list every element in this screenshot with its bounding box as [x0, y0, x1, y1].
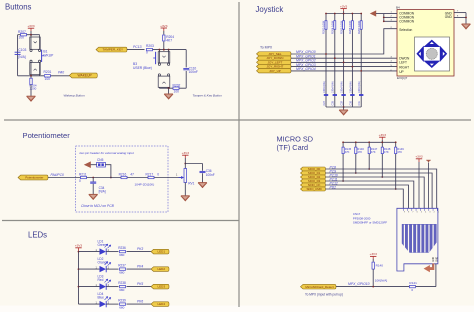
push-button B3 USER [153, 50, 170, 89]
label CN5 [97, 158, 104, 162]
wire vertical joystick net 4 [351, 14, 353, 108]
svg-text:680: 680 [119, 288, 124, 292]
net label PC13 [133, 45, 142, 49]
annotation text two pin header [80, 151, 134, 155]
flag SD PC8 [301, 167, 326, 171]
capacitor C30 100nF(NA) [349, 81, 354, 105]
svg-text:MicroSDCard_Detect: MicroSDCard_Detect [305, 285, 334, 289]
net label PA4/PC0 [51, 173, 64, 177]
junction bus row 4 [352, 66, 354, 68]
wire pot to C36 [185, 164, 202, 171]
LED LD4 Blue [100, 297, 111, 308]
svg-text:680: 680 [119, 305, 124, 309]
power +3V3 (wakeup) [27, 24, 35, 35]
svg-text:47K: 47K [345, 150, 350, 154]
svg-text:100nF(NA): 100nF(NA) [358, 81, 361, 93]
capacitor C28 100nF(NA) [332, 81, 337, 105]
capacitor C29 100nF(NA) [341, 81, 346, 105]
wire net PC12 to card [326, 185, 409, 208]
svg-text:R239: R239 [118, 299, 126, 303]
wire vertical R146 [355, 142, 357, 173]
svg-text:R211: R211 [79, 172, 87, 176]
label To MPX [260, 46, 273, 50]
page margin bottom [0, 306, 474, 312]
svg-text:R207 100K: R207 100K [357, 20, 361, 34]
wire net MPX_GPIO3 [291, 66, 397, 68]
LED LD3 Red [100, 279, 111, 290]
svg-text:100nF(NA): 100nF(NA) [349, 81, 352, 93]
power +3V3 (pot) [182, 151, 190, 164]
svg-text:0: 0 [79, 179, 81, 183]
svg-text:R140: R140 [376, 263, 384, 267]
annotation To MPX [305, 293, 343, 297]
ground (joystick caps) [339, 110, 348, 115]
junction top rail 5 [360, 13, 362, 15]
flag WAKEUP [69, 73, 97, 78]
junction bottom rail [343, 106, 345, 108]
svg-text:USER (Blue): USER (Blue) [133, 66, 152, 70]
junction bottom wakeup [30, 75, 32, 77]
label GND GND (card) [433, 257, 438, 262]
junction R146 row [355, 172, 357, 174]
net label PC11 [330, 177, 338, 181]
wire R203 to node [153, 49, 187, 51]
resistor R204 100K (pull-up) [331, 20, 336, 34]
junction bottom tamper [168, 87, 170, 89]
power +3V3 (joystick pull-ups) [340, 4, 348, 13]
svg-text:100: 100 [19, 36, 25, 40]
power +3V3 (LEDs) [75, 244, 83, 252]
svg-text:100nF(NA): 100nF(NA) [323, 81, 326, 93]
wire LD2 to R237 [106, 268, 118, 270]
resistor R205 100K (pull-up) [339, 20, 344, 34]
junction R149 row [395, 188, 397, 190]
svg-text:2: 2 [434, 212, 435, 214]
ground (pot) [181, 196, 190, 201]
svg-text:5: 5 [421, 212, 422, 214]
flag Potentiometer [18, 175, 48, 180]
wire CN5 pin2 down [105, 165, 111, 178]
svg-text:C31: C31 [358, 100, 361, 105]
flag SD PD2 [301, 187, 326, 191]
junction top rail 3 [343, 13, 345, 15]
power +3V3 (SD pull-ups) [379, 133, 387, 142]
wire GND pins [454, 13, 466, 24]
wire to R204 [30, 76, 32, 78]
svg-text:LED1: LED1 [158, 250, 166, 254]
capacitor C103 [N/A] [15, 48, 27, 59]
flag LED2 [151, 267, 169, 272]
flag TAMPER_KEY [96, 47, 127, 52]
svg-text:PA4/PC0: PA4/PC0 [51, 173, 64, 177]
junction C34 [92, 177, 94, 179]
svg-text:PK6: PK6 [137, 300, 143, 304]
svg-text:MPX_GPIO10: MPX_GPIO10 [348, 282, 370, 286]
pin numbers B4 right [457, 11, 459, 18]
svg-text:Tamper & Key Button: Tamper & Key Button [193, 94, 223, 98]
junction GND pins [465, 17, 467, 19]
junction R148 row [381, 176, 383, 178]
svg-text:R203: R203 [146, 44, 154, 48]
svg-text:100nF(NA): 100nF(NA) [341, 81, 344, 93]
svg-text:100: 100 [45, 77, 51, 81]
net label MPX_GPIO10 [348, 282, 370, 286]
svg-text:4: 4 [425, 212, 426, 214]
wire LD1 to R236 [106, 251, 118, 253]
annotation box (analog input) [76, 146, 169, 212]
flag JOY_DOWN [257, 56, 292, 60]
label B4 [396, 6, 400, 10]
svg-text:GND: GND [436, 257, 438, 262]
junction detect [372, 286, 374, 288]
junction LED rows [78, 251, 80, 288]
svg-text:R203 100K: R203 100K [322, 20, 326, 34]
svg-text:[N/A]: [N/A] [18, 55, 25, 59]
svg-text:4K7: 4K7 [166, 39, 172, 43]
power arrow VDD (joystick) [370, 10, 384, 16]
flag LED3 [151, 284, 169, 289]
resistor R204 2K2 [29, 78, 37, 90]
svg-text:R237: R237 [118, 264, 126, 268]
svg-text:C29: C29 [341, 100, 344, 105]
wire net PC8 to card [326, 169, 437, 208]
junction R145 top [342, 141, 344, 143]
svg-text:R238: R238 [118, 281, 126, 285]
svg-text:47K: 47K [371, 150, 376, 154]
wire vertical R148 [381, 142, 383, 177]
wire R236 to flag [127, 251, 152, 253]
svg-text:9: 9 [404, 212, 405, 214]
caption Wakeup Button [64, 94, 85, 98]
resistor R237 680 [118, 264, 126, 275]
svg-text:LED4: LED4 [158, 302, 166, 306]
net label PK6 [137, 300, 143, 304]
wire detect net [336, 286, 409, 288]
flag SD PC12 [301, 183, 326, 187]
flag SD PC9 [301, 171, 326, 175]
section divider horizontal left [2, 220, 239, 222]
svg-text:100: 100 [174, 89, 180, 93]
svg-text:GND: GND [433, 257, 435, 262]
junction bus row 5 [360, 70, 362, 72]
net label MPX_GPIO1 [296, 54, 316, 58]
wire vertical R149 [395, 142, 397, 189]
wire row LED4 left [79, 303, 100, 305]
capacitor C36 100nF [200, 169, 215, 182]
label LD1 Green [98, 240, 107, 247]
wire top rail (SD) [343, 141, 396, 143]
svg-text:+3V3: +3V3 [340, 4, 348, 8]
net label MPX_GPIO0 [296, 50, 316, 54]
wire TAMPER to R203 [127, 49, 145, 51]
power +3V3 (card detect) [370, 252, 378, 262]
wire row LED3 left [79, 286, 100, 288]
pin numbers LD1 [96, 249, 110, 252]
svg-text:R216: R216 [119, 172, 127, 176]
label LD3 Red [98, 275, 104, 282]
svg-text:R207: R207 [18, 30, 26, 34]
svg-text:Buttons: Buttons [5, 2, 32, 11]
wire vertical joystick net 1 [325, 14, 327, 108]
SD card connector outline [397, 208, 438, 271]
svg-text:1: 1 [438, 212, 439, 214]
wire LD4 to R239 [106, 303, 118, 305]
pin labels B4 [399, 11, 452, 74]
capacitor C34 [N/A] [90, 178, 106, 195]
SD card pin row [403, 208, 439, 213]
connector CN5 (2-pin header) [97, 162, 106, 167]
svg-text:+3V3: +3V3 [160, 24, 168, 28]
resistor R203 100K (pull-up) [322, 20, 327, 34]
capacitor C27 100nF(NA) [323, 81, 328, 105]
ground (tamper) [164, 94, 173, 99]
wire LD3 to R238 [106, 286, 118, 288]
svg-text:3: 3 [429, 212, 430, 214]
net label PC12 [330, 181, 338, 185]
wire top rail (joystick) [326, 13, 361, 15]
joystick D-pad icon [415, 37, 450, 71]
svg-text:LED2: LED2 [158, 267, 166, 271]
resistor R201 100 [44, 70, 52, 81]
svg-text:Potentiometer: Potentiometer [23, 131, 71, 140]
flag LED1 [151, 249, 169, 254]
svg-text:100nF: 100nF [206, 173, 215, 177]
net label PC8 [330, 165, 337, 169]
svg-text:(TF) Card: (TF) Card [277, 143, 309, 152]
section title Buttons [5, 2, 32, 11]
svg-text:B4: B4 [396, 6, 400, 10]
svg-text:GND: GND [445, 15, 453, 19]
svg-text:R204 100K: R204 100K [331, 20, 335, 34]
svg-text:PK3: PK3 [137, 247, 143, 251]
net label PC10 [330, 173, 338, 177]
resistor R202 100 [173, 84, 181, 94]
label CN17 PF5008-2000 [353, 212, 387, 224]
wire main analog [48, 177, 181, 179]
svg-text:PA0: PA0 [58, 71, 64, 75]
svg-text:TAMPER_KEY: TAMPER_KEY [103, 48, 124, 52]
section title Potentiometer [23, 131, 71, 140]
svg-text:EVQQ7: EVQQ7 [397, 76, 408, 80]
junction +3V3/R207 [30, 34, 32, 36]
svg-text:47K: 47K [357, 150, 362, 154]
section title LEDs [28, 230, 47, 239]
svg-text:UP: UP [399, 70, 403, 74]
svg-text:LED3: LED3 [158, 285, 166, 289]
flag LED4 [151, 302, 169, 307]
net label MPX_GPIO2 [296, 59, 316, 63]
wire net MPX_GPIO1 [291, 57, 397, 59]
wire vertical joystick net 5 [360, 14, 362, 108]
junction R146 top [355, 141, 357, 143]
wire detect to card [416, 264, 436, 287]
junction top rail 1 [325, 13, 327, 15]
svg-text:Red: Red [98, 278, 104, 282]
wire bottom (tamper) [159, 87, 186, 89]
potentiometer RV1 104P-2D(10K) [135, 164, 195, 196]
resistor R238 680 [118, 281, 126, 292]
resistor R207 100 [18, 30, 27, 39]
pin numbers B4 left [391, 12, 393, 72]
svg-text:680: 680 [119, 253, 124, 257]
resistor R211 0 [79, 172, 87, 183]
wire left (wakeup loop) [17, 35, 19, 76]
svg-text:R206 100K: R206 100K [348, 20, 352, 34]
capacitor C110 100nF [183, 50, 198, 89]
svg-text:10K[N/A]: 10K[N/A] [375, 278, 388, 282]
svg-text:WAKEUP: WAKEUP [78, 74, 93, 78]
svg-text:+3V3: +3V3 [75, 244, 83, 248]
svg-text:+3V3: +3V3 [415, 155, 423, 159]
wire to ground (wakeup) [30, 85, 32, 97]
resistor R149 47K [395, 147, 405, 154]
resistor R140 10K[N/A] [372, 262, 387, 287]
svg-text:C27: C27 [323, 100, 326, 105]
svg-text:PK4: PK4 [137, 265, 143, 269]
svg-text:47: 47 [130, 172, 134, 176]
wire to PA0 [51, 75, 70, 77]
svg-text:8: 8 [408, 212, 409, 214]
wire R237 to flag [127, 268, 152, 270]
label B3 USER (Blue) [133, 62, 152, 70]
power arrow CN5 pin1 [84, 161, 97, 168]
label LD2 Orange [98, 257, 109, 264]
svg-text:PK5: PK5 [137, 282, 143, 286]
caption Tamper & Key Button [193, 94, 223, 98]
ground (C36) [198, 183, 207, 188]
net label PC9 [330, 169, 337, 173]
svg-text:100nF(NA): 100nF(NA) [332, 81, 335, 93]
ground (wakeup) [27, 96, 36, 101]
resistor R147 47K [368, 147, 378, 154]
wire top (wakeup loop) [18, 34, 40, 36]
wire LED feed rail [78, 252, 80, 305]
resistor R146 47K [355, 147, 365, 154]
flag SD PC11 [301, 179, 326, 183]
junction CN5 net [110, 177, 112, 179]
svg-text:100nF: 100nF [189, 70, 198, 74]
junction R145 row [342, 180, 344, 182]
svg-text:Green: Green [98, 243, 107, 247]
svg-text:LEDs: LEDs [28, 230, 47, 239]
wire ground stub (joystick) [343, 107, 345, 110]
svg-text:WKUP: WKUP [43, 53, 54, 57]
wire bottom (wakeup loop) [18, 75, 44, 77]
flag JOY_LEFT [257, 60, 292, 64]
wire R238 to flag [127, 286, 152, 288]
svg-text:0: 0 [157, 172, 159, 176]
resistor R204 4K7 (pull-up) [163, 31, 175, 50]
net label MPX_GPIO4 [296, 67, 316, 71]
svg-text:[N/A]: [N/A] [99, 190, 106, 194]
resistor R145 47K [342, 147, 352, 154]
power +3V3 (SD VDD) [415, 155, 423, 209]
net label PK5 [137, 282, 143, 286]
junction R147 top [368, 141, 370, 143]
wire to ground (tamper) [168, 88, 170, 94]
junction top rail 4 [352, 13, 354, 15]
section title Joystick [256, 5, 284, 14]
connector box B4 [397, 10, 454, 76]
annotation text close to MCU [81, 204, 115, 208]
svg-text:+3V3: +3V3 [370, 252, 378, 256]
junction top rail 2 [334, 13, 336, 15]
junction R148 top [381, 141, 383, 143]
junction R147 row [368, 168, 370, 170]
resistor R216 47 [119, 172, 135, 178]
svg-text:R201: R201 [44, 70, 52, 74]
net label PK3 [137, 247, 143, 251]
junction pot top [184, 163, 186, 165]
resistor R203 0 [146, 44, 154, 55]
svg-text:R141: R141 [409, 281, 417, 285]
svg-text:+3V3: +3V3 [379, 133, 387, 137]
svg-text:Wakeup Button: Wakeup Button [64, 94, 85, 98]
wire vertical joystick net 3 [343, 14, 345, 108]
junction tamper node [158, 49, 169, 51]
wire vertical R145 [342, 142, 344, 181]
svg-text:R202: R202 [173, 84, 181, 88]
svg-text:SMD09HFF or SMD120FF: SMD09HFF or SMD120FF [353, 221, 387, 225]
wire row LED1 left [79, 251, 100, 253]
ground stub (SD VSS) [426, 160, 431, 208]
wire net PC10 to card [326, 177, 425, 208]
resistor R207 100K (pull-up) [357, 20, 362, 34]
svg-text:SDIO_CMD: SDIO_CMD [306, 187, 321, 191]
svg-text:+3V3: +3V3 [27, 24, 35, 28]
svg-text:C28: C28 [332, 100, 335, 105]
svg-text:7: 7 [412, 212, 413, 214]
resistor R239 680 [118, 299, 126, 310]
resistor R148 47K [381, 147, 391, 154]
svg-text:PC13: PC13 [133, 45, 142, 49]
svg-text:two pin header for external an: two pin header for external analog input [80, 151, 134, 155]
flag SD PC10 [301, 175, 326, 179]
pin numbers LD3 [96, 284, 110, 287]
push-button B1 WKUP [30, 35, 44, 76]
junction COMMON [383, 17, 385, 23]
junction bus row 2 [334, 57, 336, 59]
svg-text:MPX_GPIO4: MPX_GPIO4 [296, 67, 316, 71]
pin numbers LD2 [96, 266, 110, 269]
wire net PC11 to card [326, 181, 414, 208]
wire COMMON pins [384, 14, 397, 22]
svg-text:680: 680 [119, 270, 124, 274]
resistor R236 680 [118, 246, 126, 257]
card detect pin stub [432, 264, 434, 268]
svg-text:6: 6 [417, 212, 418, 214]
label LD4 Blue [98, 292, 105, 299]
svg-text:+3V3: +3V3 [182, 151, 190, 155]
wire net MPX_GPIO4 [291, 70, 397, 72]
resistor R141 0 [409, 281, 417, 292]
flag JOY_UP [257, 69, 292, 73]
svg-text:47K: 47K [384, 150, 389, 154]
LED LD1 Green [100, 244, 111, 255]
svg-text:CN5: CN5 [97, 158, 104, 162]
flag JOY_SEL [257, 52, 292, 56]
label EVQQ7 [397, 76, 408, 80]
svg-text:LEFT: LEFT [399, 61, 407, 65]
svg-text:Potentiometer: Potentiometer [25, 176, 43, 180]
section divider horizontal full [4, 119, 471, 121]
ground (joystick GND) [462, 24, 471, 29]
wire bottom rail (joystick caps) [326, 106, 361, 108]
wire vertical R147 [368, 142, 370, 169]
wire net PD2 to card [326, 189, 404, 208]
net label PA0 [58, 71, 64, 75]
net label PD2 [330, 185, 337, 189]
